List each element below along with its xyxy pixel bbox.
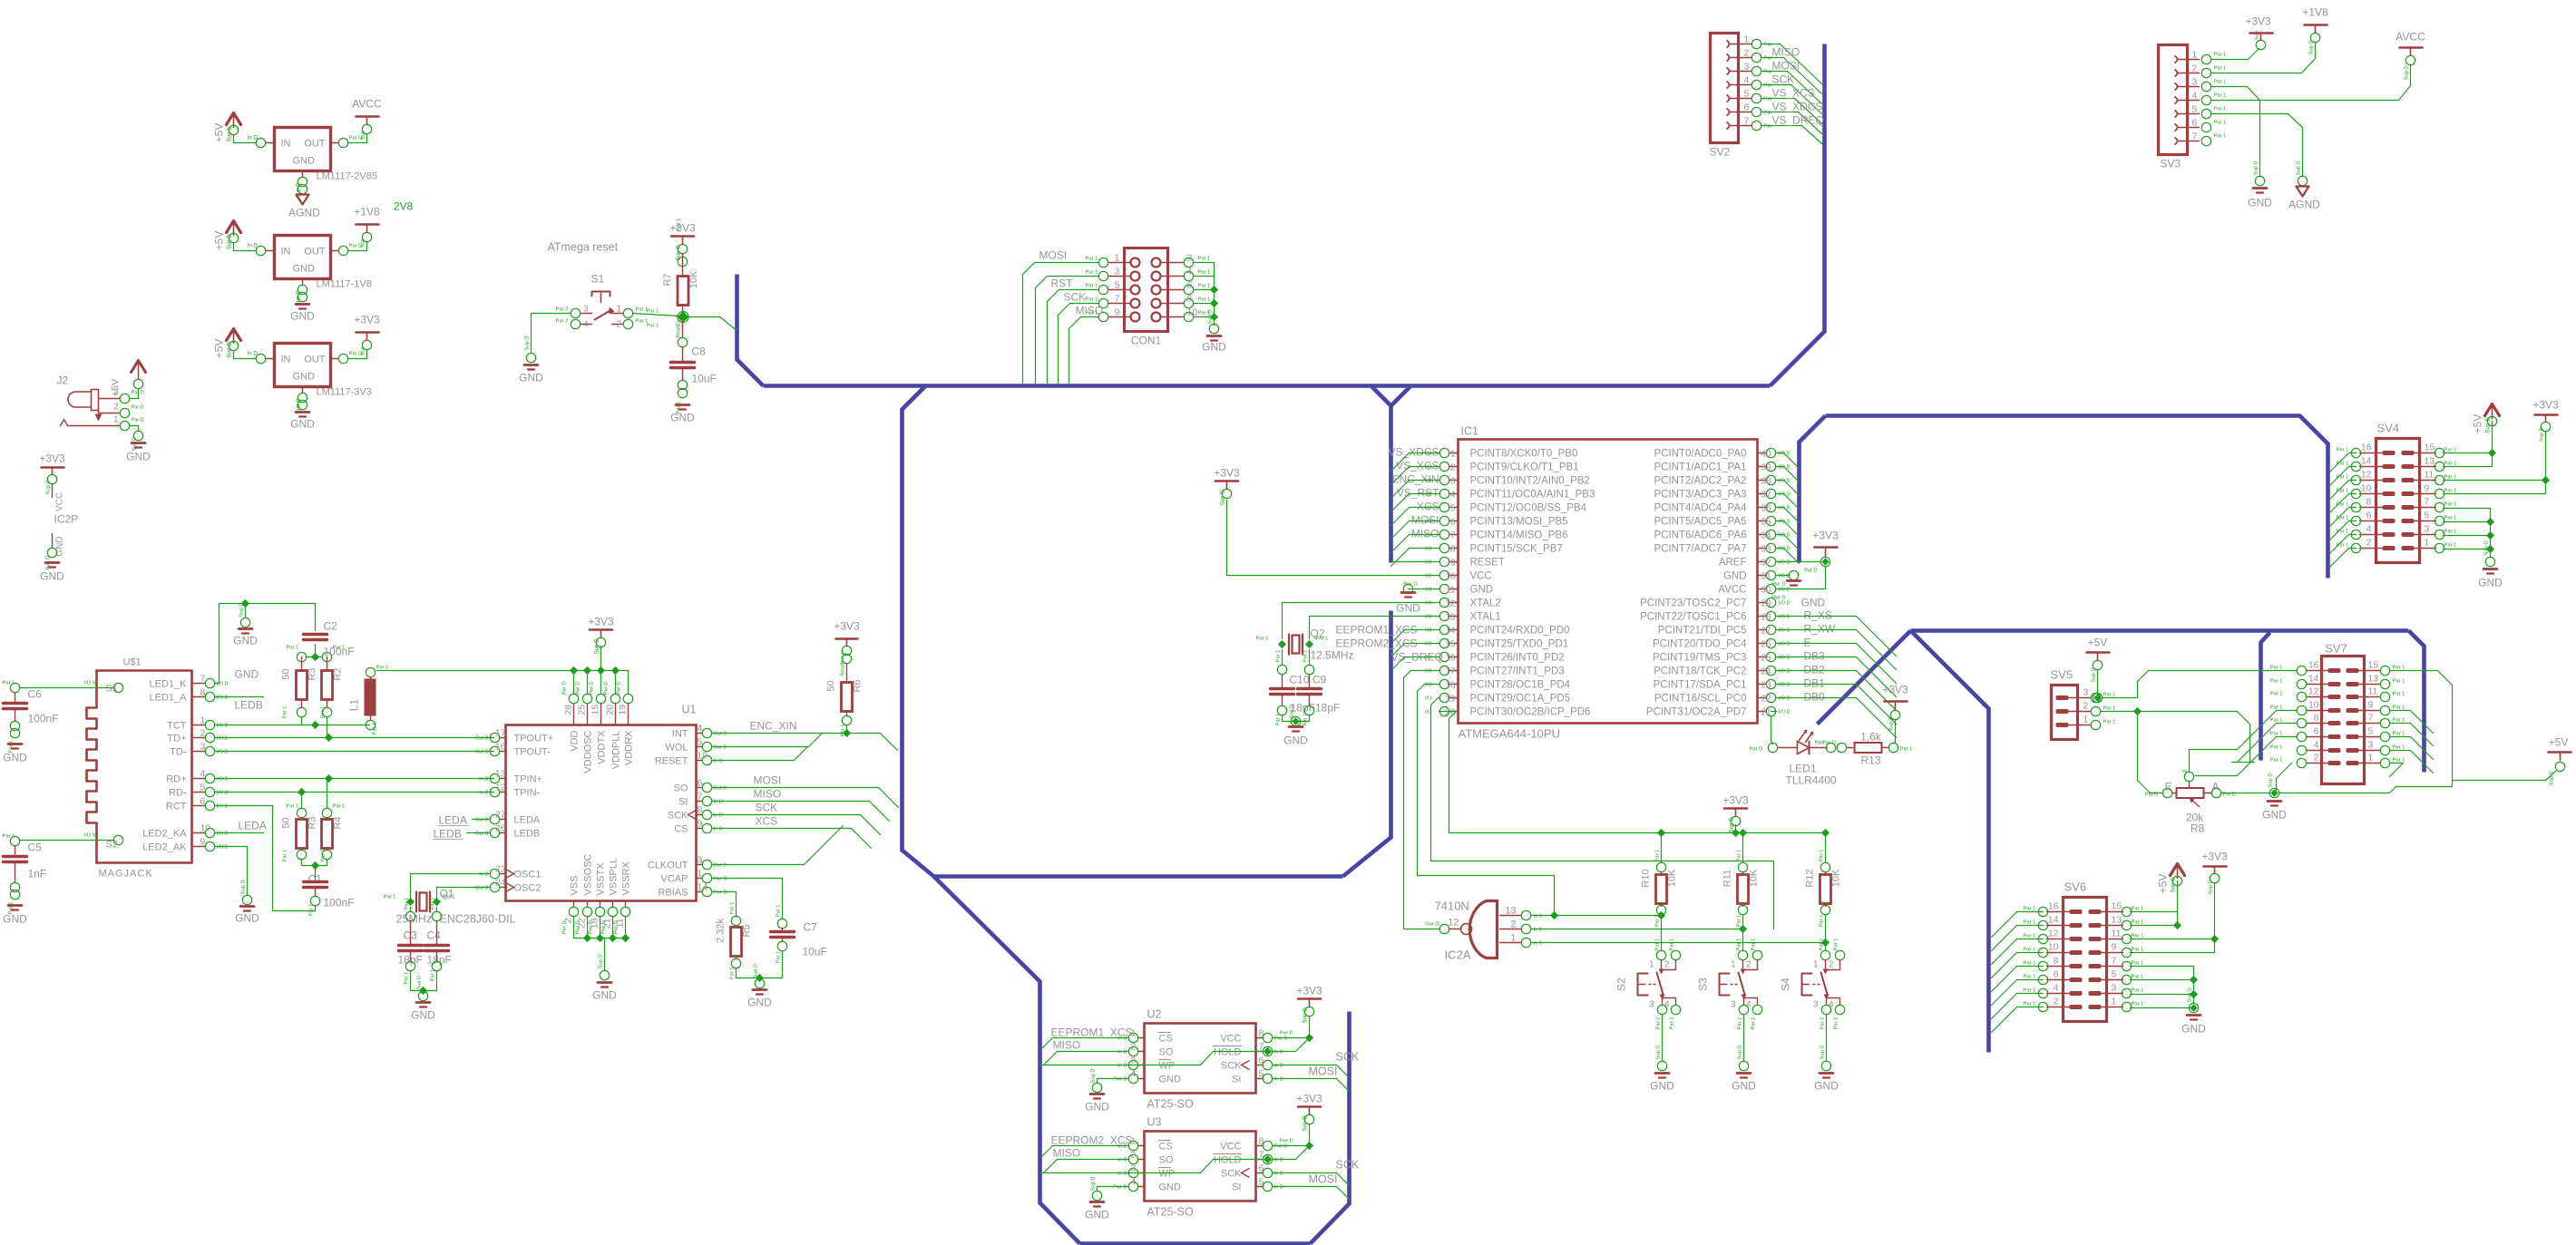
svg-text:1: 1 [1115, 253, 1120, 264]
svg-text:LEDB: LEDB [514, 829, 541, 840]
svg-text:OUT: OUT [304, 139, 326, 150]
svg-text:10: 10 [200, 823, 211, 834]
svg-text:5: 5 [2368, 726, 2374, 737]
svg-text:Par 1: Par 1 [2024, 1002, 2036, 1007]
svg-text:Pwr D: Pwr D [562, 681, 568, 695]
svg-text:Pwr D: Pwr D [1274, 1144, 1288, 1150]
svg-text:Par 1: Par 1 [333, 804, 346, 810]
svg-text:MISO: MISO [1076, 305, 1104, 317]
svg-text:PCINT16/SCL_PC0: PCINT16/SCL_PC0 [1654, 694, 1747, 705]
svg-text:PCINT3/ADC3_PA3: PCINT3/ADC3_PA3 [1654, 490, 1746, 501]
svg-text:R4: R4 [333, 816, 344, 829]
svg-text:MISO: MISO [1411, 528, 1439, 540]
svg-text:Par 1: Par 1 [405, 898, 410, 910]
svg-text:7: 7 [2192, 131, 2198, 142]
svg-text:Par 1: Par 1 [321, 850, 327, 862]
svg-text:11: 11 [2368, 686, 2378, 697]
svg-text:SV6: SV6 [2064, 880, 2087, 894]
svg-text:I/O: I/O [1425, 560, 1432, 566]
svg-text:Sup D: Sup D [2484, 540, 2490, 555]
svg-text:I/O D: I/O D [217, 804, 229, 810]
svg-text:Pwr D: Pwr D [1403, 582, 1417, 588]
svg-text:14: 14 [2308, 674, 2319, 685]
svg-text:4: 4 [583, 320, 589, 330]
svg-text:Par 2: Par 2 [1820, 1017, 1826, 1030]
svg-text:1: 1 [2112, 997, 2117, 1007]
svg-text:I/O D: I/O D [217, 724, 229, 729]
svg-text:Par 1: Par 1 [1276, 714, 1282, 726]
svg-text:GND: GND [1202, 341, 1226, 354]
svg-text:28: 28 [563, 705, 574, 715]
svg-text:SCK: SCK [1064, 291, 1087, 304]
svg-text:ENC_XIN: ENC_XIN [1391, 473, 1439, 486]
svg-text:VS_DREQ: VS_DREQ [1772, 114, 1824, 127]
svg-text:12: 12 [495, 783, 506, 793]
svg-text:21: 21 [1761, 708, 1772, 718]
svg-text:5: 5 [1115, 280, 1120, 291]
svg-text:7: 7 [1259, 1042, 1264, 1053]
svg-text:14: 14 [2361, 456, 2372, 467]
svg-text:Q1: Q1 [440, 888, 454, 900]
svg-text:GND: GND [290, 418, 315, 431]
svg-text:Sup: Sup [361, 131, 366, 140]
svg-text:10: 10 [2361, 483, 2372, 494]
svg-text:1: 1 [1731, 960, 1736, 970]
svg-text:16: 16 [495, 742, 506, 753]
svg-text:RBIAS: RBIAS [658, 888, 688, 899]
svg-text:15: 15 [590, 705, 601, 715]
svg-text:LM1117-2V85: LM1117-2V85 [317, 171, 377, 182]
svg-text:S2: S2 [1615, 978, 1628, 991]
svg-text:Par 1: Par 1 [1820, 939, 1825, 951]
svg-text:7: 7 [698, 792, 703, 802]
svg-text:3: 3 [1131, 1055, 1137, 1066]
svg-text:2: 2 [2083, 701, 2089, 712]
svg-text:Sup D: Sup D [241, 880, 247, 894]
svg-text:5: 5 [2192, 104, 2198, 115]
svg-text:LEDB: LEDB [434, 828, 462, 841]
svg-text:33: 33 [1761, 545, 1772, 555]
svg-text:Par 1: Par 1 [283, 850, 288, 862]
svg-text:DB3: DB3 [1804, 650, 1826, 663]
svg-text:Par 1: Par 1 [2103, 720, 2116, 725]
svg-text:SCK: SCK [1772, 73, 1795, 86]
svg-text:XTAL2: XTAL2 [1470, 598, 1501, 609]
svg-text:PCINT7/ADC7_PA7: PCINT7/ADC7_PA7 [1654, 544, 1746, 555]
svg-text:18pF: 18pF [427, 954, 452, 967]
svg-text:VS_XCS: VS_XCS [1772, 87, 1815, 100]
svg-text:VDDOSC: VDDOSC [583, 730, 594, 773]
svg-text:38: 38 [1761, 477, 1772, 487]
svg-text:Par 1: Par 1 [2393, 666, 2405, 671]
svg-text:6: 6 [1259, 1055, 1264, 1066]
svg-text:2: 2 [2054, 997, 2059, 1007]
svg-text:+5V: +5V [213, 123, 226, 143]
svg-text:I/O: I/O [1425, 615, 1432, 620]
svg-text:SO: SO [1159, 1047, 1174, 1058]
svg-text:10K: 10K [688, 270, 699, 288]
svg-text:Par 1: Par 1 [405, 972, 410, 985]
svg-text:I/O: I/O [1425, 601, 1432, 607]
svg-text:Par 1: Par 1 [2444, 502, 2457, 508]
svg-text:Sup D: Sup D [227, 126, 233, 142]
svg-text:7: 7 [2368, 713, 2374, 724]
svg-text:1nF: 1nF [28, 868, 47, 880]
svg-text:4: 4 [200, 769, 206, 780]
svg-text:6: 6 [698, 778, 703, 789]
svg-text:VCC: VCC [1470, 571, 1492, 582]
svg-text:6: 6 [2366, 511, 2372, 521]
svg-text:12: 12 [2308, 686, 2319, 697]
svg-text:Out D: Out D [475, 886, 489, 891]
svg-text:MOSI: MOSI [1309, 1173, 1338, 1186]
svg-text:Par 1: Par 1 [2103, 706, 2116, 712]
svg-text:C5: C5 [28, 841, 43, 854]
svg-text:2: 2 [2192, 63, 2198, 74]
svg-text:+5V: +5V [2088, 637, 2108, 649]
svg-text:2: 2 [1744, 48, 1750, 59]
svg-text:In D: In D [714, 813, 723, 819]
svg-text:DB1: DB1 [1804, 677, 1826, 690]
svg-text:Par D: Par D [2145, 793, 2159, 798]
svg-text:10uF: 10uF [803, 946, 827, 958]
svg-text:Par 1: Par 1 [384, 895, 396, 900]
svg-text:EEPROM2_XCS: EEPROM2_XCS [1051, 1134, 1133, 1147]
svg-text:In D: In D [1274, 1077, 1283, 1083]
svg-text:In D: In D [1274, 1050, 1283, 1055]
svg-text:2: 2 [1664, 960, 1670, 970]
svg-text:In D: In D [479, 777, 488, 783]
svg-text:I/O D: I/O D [217, 695, 229, 701]
svg-text:Par 1: Par 1 [373, 723, 378, 735]
svg-text:28: 28 [1761, 613, 1772, 623]
svg-text:10: 10 [698, 751, 708, 762]
svg-text:I/O D: I/O D [217, 777, 229, 783]
svg-text:Par 1: Par 1 [1655, 915, 1661, 928]
svg-text:Par 1: Par 1 [2214, 107, 2227, 112]
svg-text:Par 1: Par 1 [677, 219, 682, 231]
svg-text:9: 9 [1450, 559, 1456, 569]
svg-text:PCINT15/SCK_PB7: PCINT15/SCK_PB7 [1470, 544, 1563, 555]
svg-text:+3V3: +3V3 [669, 222, 696, 235]
svg-text:1: 1 [2192, 50, 2198, 61]
svg-text:15: 15 [2112, 901, 2122, 912]
svg-text:Sup D: Sup D [1303, 1115, 1309, 1132]
svg-text:In D: In D [1117, 1172, 1127, 1177]
svg-text:Par 1: Par 1 [1086, 297, 1098, 303]
svg-text:LED2_KA: LED2_KA [142, 829, 187, 840]
svg-text:8: 8 [200, 687, 206, 698]
svg-text:Par 1: Par 1 [730, 968, 736, 980]
svg-text:PCINT6/ADC6_PA6: PCINT6/ADC6_PA6 [1654, 530, 1746, 541]
svg-text:Sup D: Sup D [1820, 1045, 1826, 1059]
svg-text:Sup D: Sup D [46, 480, 52, 494]
svg-text:3: 3 [2112, 983, 2117, 994]
svg-text:4: 4 [2192, 91, 2198, 102]
svg-text:Par 1: Par 1 [1316, 637, 1329, 642]
svg-text:SV3: SV3 [2161, 158, 2181, 170]
svg-text:Par 1: Par 1 [1737, 850, 1742, 862]
svg-text:9: 9 [200, 837, 206, 848]
svg-text:Par: Par [1764, 70, 1772, 75]
svg-text:Par 1: Par 1 [1670, 939, 1675, 951]
svg-text:Pwr D: Pwr D [714, 890, 727, 896]
svg-text:1: 1 [2083, 715, 2089, 725]
svg-text:PCINT0/ADC0_PA0: PCINT0/ADC0_PA0 [1654, 449, 1746, 460]
svg-text:TPOUT-: TPOUT- [514, 747, 551, 758]
svg-text:29: 29 [1761, 599, 1772, 609]
svg-text:Par 1: Par 1 [2024, 961, 2036, 967]
svg-text:Par 1: Par 1 [2132, 975, 2144, 980]
svg-text:Sup: Sup [361, 346, 366, 355]
svg-text:Sup D: Sup D [2171, 877, 2177, 893]
svg-text:Par 1: Par 1 [647, 309, 659, 315]
svg-text:+3V3: +3V3 [1214, 467, 1240, 480]
svg-text:10: 10 [2048, 942, 2059, 953]
svg-text:Pwr D: Pwr D [1113, 1077, 1127, 1083]
svg-text:Pwr D: Pwr D [589, 920, 594, 934]
svg-text:1: 1 [1510, 933, 1516, 944]
svg-text:7: 7 [2425, 497, 2430, 508]
svg-text:Par: Par [1764, 83, 1772, 89]
svg-text:In D: In D [479, 791, 488, 796]
svg-text:Par D: Par D [1804, 569, 1817, 574]
svg-text:GND: GND [290, 310, 315, 323]
svg-text:OSC1: OSC1 [514, 870, 542, 880]
svg-text:PCINT21/TDI_PC5: PCINT21/TDI_PC5 [1658, 626, 1747, 637]
svg-text:I/O: I/O [1425, 574, 1432, 579]
svg-text:2: 2 [2366, 538, 2372, 549]
svg-text:PCINT30/OC2B/ICP_PD6: PCINT30/OC2B/ICP_PD6 [1470, 707, 1591, 718]
svg-text:SV5: SV5 [2051, 668, 2073, 682]
svg-text:Sup D: Sup D [1729, 817, 1735, 833]
svg-text:3: 3 [698, 855, 703, 866]
svg-text:I/O D: I/O D [1779, 683, 1791, 688]
svg-text:+1V8: +1V8 [2302, 6, 2328, 19]
svg-text:3: 3 [1115, 267, 1120, 277]
svg-text:U$1: U$1 [123, 657, 141, 668]
svg-text:VSSRX: VSSRX [621, 861, 632, 896]
svg-text:CLKOUT: CLKOUT [648, 861, 688, 871]
svg-text:GND: GND [1396, 602, 1420, 615]
svg-text:Pwr D: Pwr D [617, 681, 622, 695]
svg-text:Sup D: Sup D [227, 342, 233, 358]
svg-text:In D: In D [1274, 1064, 1283, 1069]
svg-text:MOSI: MOSI [754, 774, 782, 787]
svg-text:I/O D: I/O D [1779, 615, 1791, 620]
svg-text:C6: C6 [28, 688, 43, 701]
svg-text:17: 17 [495, 728, 506, 739]
svg-text:12: 12 [1445, 599, 1456, 609]
svg-text:Out D: Out D [475, 736, 489, 742]
svg-text:SI: SI [1232, 1075, 1241, 1085]
svg-text:ResetEn: ResetEn [677, 319, 682, 337]
svg-text:VCAP: VCAP [661, 874, 688, 885]
svg-text:GND: GND [3, 752, 27, 764]
svg-text:In 1: In 1 [1534, 928, 1543, 933]
svg-text:SI: SI [1232, 1182, 1241, 1193]
svg-text:LM1117-1V8: LM1117-1V8 [317, 279, 372, 290]
svg-text:20: 20 [605, 705, 616, 715]
svg-text:C10 C9: C10 C9 [1290, 674, 1327, 686]
svg-text:Par 1: Par 1 [1820, 915, 1825, 928]
svg-text:2: 2 [2314, 753, 2319, 764]
svg-text:I/O D: I/O D [217, 736, 229, 742]
svg-text:C2: C2 [324, 620, 338, 633]
svg-text:LEDB: LEDB [235, 699, 263, 712]
svg-text:SO: SO [674, 783, 688, 794]
svg-text:OUT: OUT [304, 247, 326, 258]
svg-text:Sup D: Sup D [1091, 1176, 1097, 1191]
svg-text:11: 11 [1446, 586, 1456, 596]
svg-text:7: 7 [2112, 956, 2117, 967]
svg-text:18pF18pF: 18pF18pF [1291, 702, 1341, 715]
svg-text:7: 7 [200, 674, 206, 685]
svg-text:Par: Par [1764, 111, 1772, 116]
svg-text:Par 1: Par 1 [1256, 637, 1269, 642]
svg-text:Par 1: Par 1 [2393, 679, 2405, 685]
svg-text:AVCC: AVCC [1718, 585, 1746, 596]
svg-text:Out D: Out D [714, 732, 727, 737]
svg-text:Sup D: Sup D [1220, 490, 1226, 506]
svg-text:100nF: 100nF [324, 646, 355, 658]
svg-text:3: 3 [2368, 740, 2374, 751]
svg-text:L1: L1 [348, 699, 361, 712]
svg-text:TPIN-: TPIN- [514, 788, 541, 799]
svg-text:12: 12 [1448, 918, 1459, 929]
svg-text:I/O D: I/O D [1779, 642, 1791, 647]
svg-text:A: A [2212, 781, 2220, 793]
svg-text:E: E [1804, 637, 1811, 649]
svg-text:Par 1: Par 1 [3, 834, 15, 840]
svg-text:MISO: MISO [1772, 46, 1800, 59]
svg-text:Par 1: Par 1 [1303, 650, 1309, 663]
svg-text:8: 8 [698, 805, 703, 816]
svg-text:TD+: TD+ [167, 734, 186, 744]
svg-text:GND: GND [126, 451, 151, 463]
svg-text:18: 18 [1445, 681, 1456, 691]
svg-text:50: 50 [826, 680, 837, 691]
svg-text:VSSOSC: VSSOSC [583, 854, 594, 896]
svg-text:6: 6 [2192, 118, 2198, 129]
svg-text:Pwr D: Pwr D [604, 681, 610, 695]
svg-text:In 1: In 1 [1534, 941, 1543, 947]
svg-text:SCK: SCK [668, 811, 688, 822]
svg-text:10K: 10K [1831, 869, 1842, 887]
svg-text:ATMEGA644-10PU: ATMEGA644-10PU [1459, 727, 1560, 741]
svg-text:+3V3: +3V3 [1722, 794, 1749, 807]
svg-text:Par 1: Par 1 [1834, 939, 1839, 951]
svg-text:Par 1: Par 1 [287, 646, 299, 651]
svg-text:+3V3: +3V3 [834, 620, 860, 633]
svg-text:OSC2: OSC2 [514, 883, 542, 894]
svg-text:16: 16 [2308, 660, 2319, 671]
svg-text:GND: GND [592, 989, 617, 1002]
svg-text:I/O D: I/O D [1779, 601, 1791, 607]
svg-text:R7: R7 [662, 273, 673, 286]
svg-text:31: 31 [1761, 572, 1772, 582]
svg-text:Sup D: Sup D [599, 954, 604, 968]
svg-text:3: 3 [2425, 524, 2430, 535]
svg-text:4: 4 [2366, 524, 2372, 535]
svg-text:Par D: Par D [132, 391, 144, 396]
svg-text:5: 5 [1259, 1069, 1264, 1080]
svg-text:+3V3: +3V3 [1296, 985, 1322, 997]
svg-text:GND: GND [2248, 197, 2272, 209]
svg-text:2: 2 [1131, 1042, 1137, 1053]
svg-text:IC1: IC1 [1461, 425, 1479, 438]
svg-text:Pwr D: Pwr D [1771, 582, 1785, 588]
svg-text:Par 1: Par 1 [2393, 692, 2405, 697]
svg-text:3: 3 [1450, 477, 1456, 487]
svg-text:LED2_AK: LED2_AK [142, 842, 187, 853]
svg-text:Sup D: Sup D [2309, 40, 2315, 54]
svg-text:1: 1 [2425, 538, 2430, 549]
svg-text:16: 16 [2361, 443, 2372, 453]
svg-text:Par 1: Par 1 [309, 904, 315, 917]
svg-text:100nF: 100nF [28, 713, 59, 725]
svg-text:8: 8 [2054, 956, 2059, 967]
svg-text:1: 1 [1813, 960, 1819, 970]
svg-text:AT25-SO: AT25-SO [1147, 1206, 1194, 1219]
svg-text:Par 1: Par 1 [2024, 948, 2036, 953]
svg-text:Par 1: Par 1 [2132, 948, 2144, 953]
svg-text:Par 1: Par 1 [2270, 679, 2283, 685]
svg-text:14: 14 [2048, 915, 2059, 926]
svg-text:+1V8: +1V8 [354, 206, 380, 219]
svg-text:Pwr D: Pwr D [614, 920, 620, 934]
svg-text:SCK: SCK [1336, 1159, 1360, 1172]
svg-text:LEDA: LEDA [514, 815, 541, 826]
svg-text:PCINT27/INT1_PD3: PCINT27/INT1_PD3 [1470, 666, 1565, 677]
svg-text:VS_XDCS: VS_XDCS [1772, 101, 1823, 113]
svg-text:C7: C7 [804, 921, 818, 934]
svg-text:1: 1 [2368, 753, 2374, 764]
svg-text:AVCC: AVCC [352, 98, 382, 111]
svg-text:R_XW: R_XW [1804, 623, 1836, 636]
svg-text:Par 1: Par 1 [2444, 530, 2457, 535]
svg-text:14: 14 [698, 882, 708, 893]
svg-text:+3V3: +3V3 [1882, 684, 1908, 696]
svg-text:S3: S3 [1697, 978, 1710, 991]
svg-text:RD+: RD+ [166, 774, 186, 785]
svg-text:2: 2 [1510, 919, 1516, 930]
svg-text:Par 1: Par 1 [776, 905, 782, 918]
svg-text:VCC: VCC [1220, 1034, 1241, 1045]
svg-text:PCINT26/INT0_PD2: PCINT26/INT0_PD2 [1470, 653, 1565, 664]
svg-text:19: 19 [1445, 695, 1456, 705]
svg-text:4: 4 [2314, 740, 2319, 751]
svg-text:Sup D: Sup D [1091, 1068, 1097, 1083]
svg-text:PadPar D: PadPar D [1815, 741, 1836, 746]
svg-text:Sup D: Sup D [417, 976, 423, 990]
svg-text:R_XS: R_XS [1804, 609, 1832, 622]
svg-text:10K: 10K [1667, 869, 1678, 887]
svg-text:MOSI: MOSI [1772, 60, 1800, 73]
svg-text:In D: In D [1117, 1050, 1127, 1055]
svg-text:Par 1: Par 1 [287, 804, 299, 810]
svg-text:Sup D: Sup D [227, 234, 233, 250]
svg-text:Par 1: Par 1 [1086, 270, 1098, 276]
svg-text:Par 1: Par 1 [2214, 134, 2227, 140]
svg-text:Par 1: Par 1 [2132, 907, 2144, 912]
svg-text:Par 1: Par 1 [2132, 920, 2144, 926]
svg-text:GND: GND [235, 668, 259, 681]
svg-text:+5V: +5V [213, 339, 226, 359]
svg-text:I/O D: I/O D [1779, 588, 1791, 593]
svg-text:GND: GND [1085, 1209, 1109, 1221]
svg-text:GND: GND [1470, 585, 1494, 596]
